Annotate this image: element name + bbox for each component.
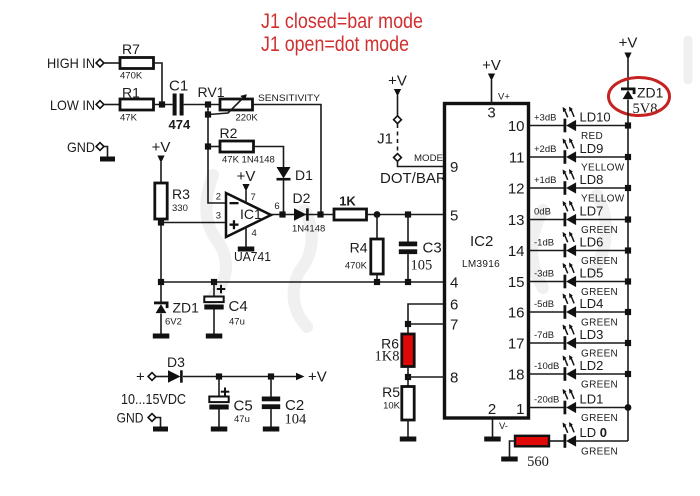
wire LD6 to rail: [576, 250, 628, 252]
LED LD3: [563, 324, 577, 350]
wire 560 to LD0: [549, 440, 564, 442]
wire R2 to D1: [254, 147, 284, 168]
ground C5: [211, 427, 228, 432]
LED LD7: [563, 201, 577, 227]
wire IC2 pin 16 to LD4: [529, 311, 564, 313]
junction rail LD4: [625, 309, 631, 315]
arrow +V supply: [296, 373, 305, 381]
ground input: [100, 147, 115, 162]
svg-text:LD10: LD10: [580, 110, 611, 125]
RV1 wiper arrow: [209, 94, 247, 114]
wire node to R4: [376, 215, 378, 240]
capacitor C1: [173, 94, 184, 116]
wire node to op-amp pin 3: [161, 222, 226, 224]
LED LD6: [563, 232, 577, 258]
svg-text:220K: 220K: [236, 113, 259, 124]
svg-text:8: 8: [450, 370, 458, 387]
svg-text:4: 4: [252, 228, 257, 239]
svg-text:13: 13: [508, 212, 525, 229]
zener ZD1 6V2: [154, 302, 169, 314]
terminal GND supply terminal: [148, 414, 156, 422]
svg-text:2: 2: [216, 192, 221, 203]
wire supply to D3: [156, 376, 168, 378]
svg-text:7: 7: [251, 192, 256, 203]
svg-text:C1: C1: [169, 78, 188, 95]
wire IC1 output to 1K: [271, 214, 334, 216]
svg-text:IC2: IC2: [470, 233, 493, 250]
svg-text:-3dB: -3dB: [534, 269, 554, 280]
junction node C4: [211, 279, 217, 285]
svg-text:1: 1: [516, 401, 524, 418]
diode D2: [294, 208, 309, 220]
resistor R3: [155, 183, 167, 219]
svg-text:D3: D3: [167, 354, 185, 370]
svg-text:18: 18: [508, 367, 525, 384]
svg-text:47u: 47u: [234, 414, 250, 425]
svg-text:10: 10: [508, 118, 525, 135]
junction rail LD1: [625, 404, 632, 411]
svg-text:470K: 470K: [345, 261, 368, 272]
wire +V to IC1 pin 7: [245, 191, 247, 204]
svg-text:DOT/BAR: DOT/BAR: [380, 170, 447, 187]
wire IC2 pin 2 to ground: [492, 418, 494, 437]
LED LD0: [563, 422, 577, 448]
svg-text:J1: J1: [377, 131, 393, 148]
wire LOW IN to R1: [104, 104, 120, 106]
wire node to op-amp pin 2: [208, 105, 226, 204]
svg-text:6: 6: [450, 297, 458, 314]
junction node C3: [405, 211, 411, 217]
wire LD10 to rail: [576, 125, 628, 127]
svg-text:6V2: 6V2: [165, 317, 182, 328]
svg-text:V-: V-: [499, 421, 508, 432]
junction node sensitivity/output: [317, 211, 323, 217]
wire bus to IC2 pin 4: [161, 281, 445, 283]
junction rail LD10: [625, 122, 631, 128]
wire node to IC2 pin 7: [408, 323, 445, 325]
svg-text:UA741: UA741: [234, 249, 271, 264]
terminal GND input terminal: [96, 143, 104, 151]
wire C2 to ground: [270, 409, 272, 427]
svg-text:GREEN: GREEN: [581, 413, 618, 424]
LED LD1: [563, 389, 577, 415]
svg-text:LD6: LD6: [580, 235, 604, 250]
wire LED anode rail: [627, 100, 629, 442]
arrow +V IC1: [242, 184, 249, 192]
svg-text:V+: V+: [498, 92, 510, 103]
svg-text:5: 5: [450, 208, 458, 225]
label C4 plus: [217, 285, 226, 294]
junction node R4 bottom: [374, 279, 380, 285]
LED LD4: [563, 293, 577, 319]
wire R3 to zener / bus: [160, 219, 162, 302]
terminal J1 top: [394, 116, 402, 124]
svg-text:D1: D1: [295, 167, 313, 183]
watermark (faint): [206, 40, 688, 327]
svg-text:+2dB: +2dB: [534, 144, 556, 155]
wire HIGH IN to R7: [104, 62, 120, 64]
wire +V to IC2 V+: [491, 80, 493, 104]
svg-text:J1 open=dot mode: J1 open=dot mode: [261, 33, 409, 56]
wire IC2 pin 1 to LD1: [529, 407, 564, 409]
wire +V to ZD1 5V8: [627, 59, 629, 88]
wire +V to R3: [160, 162, 162, 183]
svg-text:LD7: LD7: [580, 204, 604, 219]
svg-text:ZD1: ZD1: [637, 85, 664, 101]
svg-text:14: 14: [508, 243, 525, 260]
svg-text:GREEN: GREEN: [581, 447, 618, 458]
svg-text:D2: D2: [293, 190, 311, 206]
junction node R4: [374, 211, 381, 218]
svg-text:+V: +V: [388, 73, 407, 90]
resistor R5: [402, 387, 414, 421]
ground IC1 pin 4: [238, 247, 255, 252]
svg-text:-7dB: -7dB: [534, 330, 554, 341]
resistor R7: [120, 58, 154, 69]
wire R4 to bus: [376, 274, 378, 282]
svg-text:4: 4: [450, 275, 458, 292]
wire LD0 to rail: [576, 440, 628, 442]
wire 1K to IC2 pin 5: [367, 214, 445, 216]
svg-text:16: 16: [508, 305, 525, 322]
svg-text:R7: R7: [122, 41, 140, 57]
junction node ZD1: [158, 279, 164, 285]
wire ZD1 to ground: [160, 314, 162, 335]
svg-text:-1dB: -1dB: [534, 238, 554, 249]
junction node C5: [216, 373, 222, 379]
svg-text:330: 330: [172, 203, 188, 214]
svg-text:LD9: LD9: [580, 141, 604, 156]
svg-text:LD 0: LD 0: [580, 425, 607, 440]
junction node RV1 left: [205, 101, 211, 107]
svg-text:LD3: LD3: [580, 327, 604, 342]
junction rail LD5: [625, 278, 631, 284]
svg-text:LD1: LD1: [580, 392, 604, 407]
svg-text:47u: 47u: [229, 317, 245, 328]
svg-text:104: 104: [285, 412, 308, 428]
ground R5: [400, 437, 417, 442]
svg-text:0dB: 0dB: [534, 207, 551, 218]
svg-text:GND: GND: [117, 410, 144, 426]
svg-text:17: 17: [508, 336, 525, 353]
wire LD8 to rail: [576, 187, 628, 189]
capacitor C4: [204, 297, 223, 310]
svg-text:+V: +V: [152, 139, 171, 156]
wire R7 to input node: [154, 63, 163, 105]
svg-text:15: 15: [508, 274, 525, 291]
junction node pin8: [405, 374, 411, 380]
wire LD2 to rail: [576, 373, 628, 375]
resistor 560: [515, 436, 549, 447]
svg-text:MODE: MODE: [414, 153, 443, 164]
resistor R4: [371, 239, 383, 274]
wire IC2 pin 18 to LD2: [529, 373, 564, 375]
IC U2 LM3916: [445, 104, 529, 419]
terminal supply +: [148, 373, 156, 381]
junction rail LD8: [625, 185, 631, 191]
svg-text:+V: +V: [308, 369, 327, 386]
diode D3: [168, 370, 183, 382]
svg-text:2: 2: [488, 401, 496, 418]
ground C4: [206, 334, 223, 339]
svg-text:R4: R4: [350, 240, 368, 256]
svg-text:-5dB: -5dB: [534, 299, 554, 310]
wire LD9 to rail: [576, 156, 628, 158]
svg-text:IC1: IC1: [240, 206, 262, 222]
wire R6 to R5: [407, 367, 409, 387]
svg-text:ZD1: ZD1: [173, 300, 200, 316]
ground IC2 V-: [484, 437, 501, 442]
svg-text:C5: C5: [234, 398, 253, 415]
wire node to R2: [208, 146, 220, 148]
svg-text:R3: R3: [172, 186, 190, 202]
junction rail LD6: [625, 247, 631, 253]
svg-text:LOW IN: LOW IN: [50, 97, 95, 113]
svg-text:474: 474: [169, 117, 191, 132]
wire C3 to bus: [407, 254, 409, 282]
junction rail LD2: [625, 371, 631, 377]
LED LD2: [563, 355, 577, 381]
wire D3 to +V: [183, 376, 296, 378]
svg-text:+: +: [136, 369, 145, 386]
zener ZD1 5V8: [621, 88, 636, 100]
wire 560 to ground: [510, 441, 516, 457]
svg-text:12: 12: [508, 181, 525, 198]
svg-text:+3dB: +3dB: [534, 113, 556, 124]
svg-text:LD2: LD2: [580, 358, 604, 373]
svg-text:7: 7: [450, 317, 458, 334]
svg-text:R2: R2: [220, 125, 238, 141]
svg-text:3: 3: [216, 211, 221, 222]
terminal LOW IN: [96, 101, 104, 109]
svg-text:RV1: RV1: [198, 84, 225, 100]
junction node input: [159, 101, 165, 107]
wire node to C3: [407, 215, 409, 242]
wire R5 to ground: [407, 420, 409, 437]
terminal HIGH IN: [96, 59, 104, 67]
highlight ellipse around ZD1: [609, 78, 670, 116]
jumper J1 dashed: [397, 124, 399, 154]
wire IC2 pin 6 to R6: [408, 304, 445, 334]
svg-text:6: 6: [274, 201, 279, 212]
junction node op-amp pin 3: [158, 219, 164, 225]
svg-text:+V: +V: [237, 168, 256, 185]
wire IC2 pin 14 to LD6: [529, 250, 564, 252]
LED LD5: [563, 263, 577, 289]
resistor R6: [402, 334, 414, 367]
svg-text:1K: 1K: [339, 194, 356, 209]
potentiometer RV1: [220, 99, 253, 110]
wire bus to C4: [213, 282, 215, 297]
wire IC2 pin 12 to LD8: [529, 187, 564, 189]
svg-text:+V: +V: [482, 57, 501, 74]
svg-text:GREEN: GREEN: [581, 380, 618, 391]
wire SENSITIVITY net: [253, 105, 322, 215]
svg-text:R1: R1: [122, 85, 140, 101]
junction node pin7: [405, 321, 411, 327]
junction rail LD9: [625, 154, 631, 160]
diode D1: [277, 167, 291, 181]
junction node C2: [268, 373, 274, 379]
junction node C3 bottom: [405, 279, 411, 285]
wire D1 to op-amp output: [283, 180, 285, 215]
resistor R2: [220, 141, 254, 152]
capacitor C2: [262, 397, 280, 410]
svg-text:+V: +V: [619, 35, 638, 52]
svg-text:560: 560: [527, 454, 549, 470]
svg-text:GND: GND: [67, 139, 95, 155]
terminal J1 bottom: [394, 154, 402, 162]
svg-text:LD5: LD5: [580, 266, 604, 281]
svg-text:+1dB: +1dB: [534, 175, 556, 186]
svg-text:J1 closed=bar mode: J1 closed=bar mode: [261, 10, 423, 33]
wire node to C5: [218, 377, 220, 397]
wire LD4 to rail: [576, 311, 628, 313]
svg-text:LM3916: LM3916: [462, 259, 500, 270]
wire IC2 pin 15 to LD5: [529, 281, 564, 283]
wire LD5 to rail: [576, 281, 628, 283]
LED LD8: [563, 169, 577, 195]
svg-text:105: 105: [411, 258, 433, 274]
wire R1 to C1: [154, 104, 173, 106]
capacitor C5: [209, 397, 228, 410]
arrow +V R3: [157, 156, 164, 164]
wire C1 to RV1: [184, 104, 220, 106]
svg-text:SENSITIVITY: SENSITIVITY: [258, 93, 321, 104]
svg-text:11: 11: [509, 150, 525, 167]
svg-text:-10dB: -10dB: [534, 361, 559, 372]
wire LD1 to rail: [576, 407, 628, 409]
label C5 plus: [221, 388, 230, 397]
svg-text:10...15VDC: 10...15VDC: [121, 391, 186, 408]
svg-text:10K: 10K: [383, 401, 401, 412]
wire IC2 pin 10 to LD10: [529, 125, 564, 127]
resistor 1K: [334, 209, 367, 220]
svg-text:9: 9: [450, 159, 458, 176]
LED LD10: [563, 107, 577, 133]
svg-text:LD8: LD8: [580, 172, 604, 187]
svg-text:470K: 470K: [120, 71, 143, 82]
wire node to C2: [270, 377, 272, 397]
svg-text:HIGH IN: HIGH IN: [47, 55, 95, 71]
op-amp IC1: [226, 193, 271, 237]
wire C5 to ground: [218, 410, 220, 428]
capacitor C3: [399, 242, 417, 255]
arrow +V J1: [394, 89, 401, 97]
wire C4 to ground: [213, 310, 215, 335]
wire node to IC2 pin 8: [408, 376, 445, 378]
svg-text:C3: C3: [423, 240, 442, 257]
svg-text:47K 1N4148: 47K 1N4148: [222, 155, 275, 166]
wire IC2 pin 11 to LD9: [529, 156, 564, 158]
wire J1 to IC2 pin 9: [398, 162, 445, 167]
wire LD3 to rail: [576, 342, 628, 344]
junction node RV1 wiper: [205, 111, 211, 117]
svg-text:3: 3: [487, 105, 495, 122]
ground ZD1: [153, 334, 170, 339]
junction rail LD7: [625, 216, 631, 222]
resistor R1: [120, 99, 154, 110]
svg-text:-20dB: -20dB: [534, 395, 559, 406]
junction rail LD3: [625, 340, 631, 346]
svg-text:LD4: LD4: [580, 296, 604, 311]
svg-text:47K: 47K: [120, 113, 138, 124]
arrow +V rail: [624, 53, 631, 61]
wire LD7 to rail: [576, 219, 628, 221]
ground C2: [263, 427, 280, 432]
svg-text:R5: R5: [382, 384, 400, 400]
wire IC2 pin 17 to LD3: [529, 342, 564, 344]
ground supply: [153, 418, 168, 432]
LED LD9: [563, 138, 577, 164]
junction node R2 left: [205, 143, 211, 149]
wire +V to J1: [397, 96, 399, 117]
wire IC2 pin 13 to LD7: [529, 219, 564, 221]
ground 560: [501, 457, 518, 462]
svg-text:1N4148: 1N4148: [292, 224, 325, 235]
wire IC1 pin 4 to ground: [245, 227, 247, 248]
junction node D1/output: [279, 211, 285, 217]
svg-text:C4: C4: [229, 298, 248, 315]
svg-text:1K8: 1K8: [375, 349, 400, 365]
arrow +V IC2: [488, 74, 495, 82]
